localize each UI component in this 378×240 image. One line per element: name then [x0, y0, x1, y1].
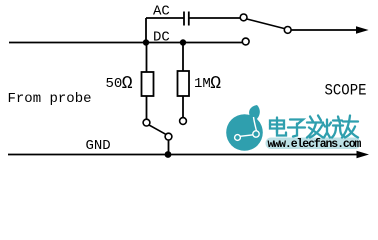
- wire: capacitor to AC terminal: [189, 17, 240, 19]
- resistor R1 bottom lead: [146, 96, 148, 119]
- svg-text:Ω: Ω: [210, 74, 221, 94]
- wire: scope line with arrowhead: [291, 29, 362, 31]
- 友: [342, 116, 358, 138]
- wire: ground rail with arrowhead: [8, 154, 362, 156]
- watermark url band: [266, 138, 361, 150]
- svg-text:www.elecfans.com: www.elecfans.com: [268, 138, 362, 151]
- svg-text:1M: 1M: [194, 76, 211, 92]
- terminal: DC output circle: [242, 38, 249, 45]
- svg-text:DC: DC: [153, 29, 170, 45]
- capacitor C1: [183, 12, 185, 26]
- wire: SW2 pole stub to ground: [168, 140, 170, 155]
- resistor R2 body: [178, 71, 190, 96]
- 子: [288, 120, 305, 137]
- switch SW2 arm (50/1M selector): [149, 125, 166, 134]
- wire: AC branch vertical: [145, 18, 147, 43]
- wire: AC branch horizontal to capacitor: [146, 17, 184, 19]
- node: junction dot at AC/DC tap: [143, 39, 149, 45]
- watermark logo disc: [226, 105, 263, 151]
- node: junction dot at 1M tap: [180, 39, 186, 45]
- svg-text:SCOPE: SCOPE: [325, 82, 367, 100]
- terminal: AC circle: [240, 14, 247, 21]
- 烧: [323, 117, 344, 138]
- svg-text:50: 50: [106, 76, 123, 92]
- svg-text:Ω: Ω: [122, 74, 133, 94]
- wire: main probe wire: [9, 42, 242, 44]
- terminal: R1 switch contact circle: [143, 119, 150, 126]
- watermark text 电子发烧友: [270, 116, 358, 138]
- svg-text:AC: AC: [153, 4, 170, 20]
- 电: [270, 118, 286, 136]
- resistor R1 50ohm: top lead: [146, 43, 148, 73]
- switch SW1 pole circle: [284, 27, 291, 34]
- node: ground junction dot: [165, 151, 172, 158]
- resistor R2 1Mohm: top lead: [182, 43, 184, 72]
- terminal: R2 switch contact circle: [180, 118, 187, 125]
- svg-text:GND: GND: [86, 138, 111, 154]
- switch SW2 pole circle: [165, 133, 172, 140]
- switch SW1 arm (AC/DC selector): [247, 19, 285, 29]
- resistor R1 body: [142, 72, 154, 96]
- svg-text:From probe: From probe: [8, 91, 92, 107]
- resistor R2 bottom lead: [182, 96, 184, 118]
- 发: [307, 116, 323, 138]
